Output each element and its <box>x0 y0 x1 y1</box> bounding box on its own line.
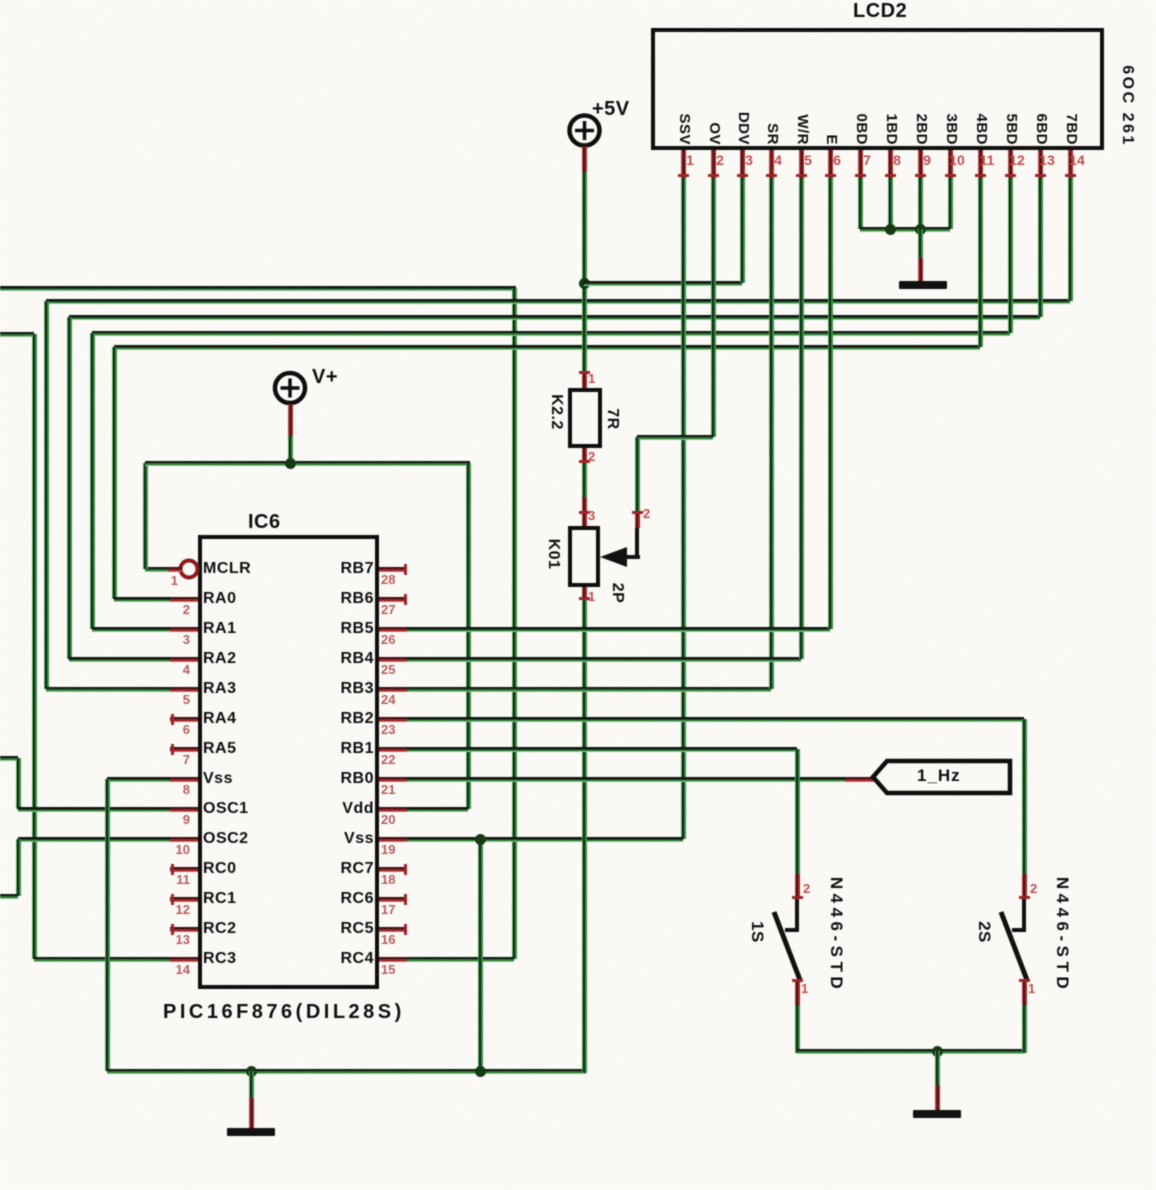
LCD2 pin 8 end tick <box>885 174 896 177</box>
IC6 pin end tick (RC6) <box>404 894 407 905</box>
S1 top contact hook <box>795 899 799 932</box>
R7 pin number 1 <box>588 372 595 386</box>
IC6 pin number 1 <box>150 574 178 588</box>
wire net RC4 row to IC pin 15 <box>407 957 514 962</box>
IC6 pin number 17 <box>381 903 395 917</box>
IC6 pin end tick (RA4) <box>171 714 174 725</box>
wire net MCLR riser <box>143 463 148 569</box>
wire net P2 bottom drop to GND rail <box>582 598 587 1073</box>
IC6 pin number 24 <box>381 693 395 707</box>
IC6 pin number 12 <box>158 903 190 917</box>
IC6 pin name RC0 <box>203 860 237 878</box>
IC6 pin number 15 <box>381 963 395 977</box>
wire net OSC1 row to IC pin 9 <box>18 807 172 812</box>
wire net RA2 row to IC pin 4 <box>69 657 172 662</box>
label R7 <box>603 408 621 429</box>
IC6 pin name OSC1 <box>203 800 249 818</box>
P2 body outline <box>568 526 600 587</box>
IC6 pin name RB0 <box>278 770 374 788</box>
wire net switch ground rail <box>797 1049 1024 1054</box>
wire net LCD VO drop <box>711 178 716 437</box>
S2 pin number 1 <box>1028 982 1035 996</box>
junction V+ node <box>285 458 296 469</box>
R7 pin stub 2 (bottom) <box>582 448 587 463</box>
switch S1 DTS-644N <box>0 0 1156 3</box>
wire net RC3 entry (off-canvas left) <box>0 332 34 337</box>
wire net OSC2 exit (off-canvas left) <box>0 894 18 899</box>
IC6 pin name RC6 <box>278 890 374 908</box>
LCD2 pin number 1 <box>680 153 700 167</box>
wire net V+ stem lower <box>288 428 293 463</box>
wire net RB5 row <box>407 627 830 632</box>
LCD2 pin name DB5 <box>1002 113 1020 145</box>
wire net Vdd riser <box>466 463 471 809</box>
R7 pin 2 end tick <box>579 460 590 463</box>
IC6 pin number 20 <box>381 813 395 827</box>
wire net RA3-DB7 horizontal <box>46 299 1070 304</box>
wire net V+ horizontal <box>145 461 470 466</box>
IC6 pin name RB6 <box>278 590 374 608</box>
wire net RB1 row <box>407 747 797 752</box>
IC6 pin stub 25 (RB4) <box>379 657 407 662</box>
ground symbol (switch rail) <box>913 1110 961 1118</box>
wire net +5V stem <box>582 170 587 371</box>
LCD2 body outline <box>651 28 1104 150</box>
IC6 pin name RC7 <box>278 860 374 878</box>
LCD2 pin name RS <box>763 123 781 145</box>
IC6 pin number 6 <box>158 723 190 737</box>
label value 10K <box>544 539 562 570</box>
LCD2 pin stub 2 (VO) <box>711 150 716 178</box>
wire net S2 bottom drop <box>1022 1005 1027 1053</box>
IC6 pin stub 20 (Vdd) <box>379 807 407 812</box>
S1 pin 2 end tick <box>792 896 803 899</box>
IC6 pin stub 24 (RB3) <box>379 687 407 692</box>
LCD2 pin name VDD <box>734 112 752 145</box>
wire net OSC1 jog <box>16 758 21 809</box>
label S2 <box>975 921 993 943</box>
LCD2 pin number 4 <box>768 153 788 167</box>
LCD2 pin number 2 <box>710 153 730 167</box>
P2 wiper pin stub 2 (red) <box>635 511 640 528</box>
wire net OSC2 jog <box>16 839 21 896</box>
IC6 pin stub 22 (RB1) <box>379 747 407 752</box>
wire net R7 to P2 link <box>582 461 587 499</box>
S1 pin stub top (red) <box>795 874 800 899</box>
R7 pin number 2 <box>588 450 595 464</box>
wire net RA1-DB5 horizontal <box>92 331 1010 336</box>
IC6 pin stub 10 (OSC2) <box>170 837 198 842</box>
ground stem red (LCD data) <box>918 258 923 282</box>
wire net E drop <box>828 178 833 629</box>
IC6 pin name OSC2 <box>203 830 249 848</box>
R7 pin stub 1 (top) <box>582 371 587 388</box>
IC6 pin stub 12 (RC1) <box>170 897 198 902</box>
IC6 pin name RC2 <box>203 920 237 938</box>
LCD2 pin stub 13 (DB6) <box>1038 150 1043 178</box>
LCD2 pin stub 3 (VDD) <box>740 150 745 178</box>
label 1_Hz <box>917 767 961 785</box>
LCD2 pin 6 end tick <box>825 174 836 177</box>
wire net RB3 row <box>407 687 771 692</box>
LCD2 pin stub 14 (DB7) <box>1068 150 1073 178</box>
IC6 pin stub 9 (OSC1) <box>170 807 198 812</box>
LCD2 pin name R/W <box>793 114 811 145</box>
R7 pin 1 end tick <box>579 371 590 374</box>
LCD2 pin 4 end tick <box>766 174 777 177</box>
label LCD2 <box>853 0 907 22</box>
LCD2 pin name DB6 <box>1032 113 1050 145</box>
IC6 pin stub 6 (RA4) <box>170 717 198 722</box>
IC6 pin name RC5 <box>278 920 374 938</box>
LCD2 pin name DB0 <box>852 113 870 145</box>
LCD2 pin stub 7 (DB0) <box>858 150 863 178</box>
LCD2 pin 11 end tick <box>975 174 986 177</box>
LCD2 pin stub 4 (RS) <box>769 150 774 178</box>
IC6 pin number 11 <box>158 873 190 887</box>
wire net +5V to LCD VDD <box>584 281 742 286</box>
IC6 pin number 19 <box>381 843 395 857</box>
wire net RA1 row to IC pin 3 <box>92 627 172 632</box>
wire net RC3 row to IC pin 14 <box>34 957 172 962</box>
LCD2 pin stub 10 (DB3) <box>948 150 953 178</box>
LCD2 pin stub 6 (E) <box>828 150 833 178</box>
wire net IC ground stem (green) <box>249 1071 254 1100</box>
wire net DB0-DB3 join <box>860 227 950 232</box>
label S1 <box>748 921 766 943</box>
junction switch rail / ground stem <box>932 1046 943 1057</box>
+5V supply symbol <box>566 112 603 149</box>
IC6 pin number 2 <box>158 603 190 617</box>
IC6 pin stub 7 (RA5) <box>170 747 198 752</box>
IC6 pin end tick (RC2) <box>171 924 174 935</box>
wire net RA0-DB4 horizontal <box>114 345 980 350</box>
IC6 pin end tick (RC5) <box>404 924 407 935</box>
LCD2 pin name VSS <box>675 113 693 145</box>
IC6 pin number 27 <box>381 603 395 617</box>
wire net DB3 drop <box>948 178 953 229</box>
IC6 pin stub 14 (RC3) <box>170 957 198 962</box>
IC6 pin name Vdd <box>278 800 374 818</box>
IC6 pin stub 21 (RB0) <box>379 777 407 782</box>
P2 wiper lead vertical <box>635 528 639 559</box>
LCD2 pin number 6 <box>827 153 847 167</box>
label P2 <box>608 583 626 604</box>
label value PIC16F876(DIL28S) <box>163 1001 405 1023</box>
wire net RA3 row to IC pin 5 <box>46 687 172 692</box>
IC6 pin stub 15 (RC4) <box>379 957 407 962</box>
wire net DB6 drop <box>1038 178 1043 317</box>
LCD2 pin name DB7 <box>1062 113 1080 145</box>
V+ pin stub (red) <box>288 404 293 436</box>
IC6 pin number 14 <box>158 963 190 977</box>
IC6 pin name RA5 <box>203 740 237 758</box>
IC6 pin stub 13 (RC2) <box>170 927 198 932</box>
LCD2 pin name E <box>822 134 840 145</box>
IC6 pin name RC4 <box>278 950 374 968</box>
ground symbol (IC ground rail) <box>227 1128 275 1136</box>
wire net RA1 left riser <box>90 333 95 629</box>
S2 lever <box>995 906 1033 986</box>
IC6 pin stub 26 (RB5) <box>379 627 407 632</box>
wire net switch ground stem <box>935 1051 940 1085</box>
wire net DB4 drop <box>978 178 983 347</box>
IC6 pin number 26 <box>381 633 395 647</box>
IC6 pin name RB2 <box>278 710 374 728</box>
LCD2 pin name DB2 <box>912 113 930 145</box>
wire net MCLR row <box>145 567 170 572</box>
P2 pin 2 end tick <box>632 511 643 514</box>
junction +5V node <box>579 278 590 289</box>
LCD2 pin 1 end tick <box>678 174 689 177</box>
LCD2 pin name DB1 <box>882 113 900 145</box>
ground stem red (IC) <box>249 1098 254 1128</box>
IC6 pin number 25 <box>381 663 395 677</box>
wire net S1 drop <box>795 749 800 874</box>
LCD2 pin number 8 <box>887 153 907 167</box>
1_Hz flag outline <box>869 755 1015 799</box>
IC6 pin end tick (RA5) <box>171 744 174 755</box>
wire net DB0 drop <box>858 178 863 229</box>
IC6 pin name RB5 <box>278 620 374 638</box>
S1 pin stub bottom (red) <box>795 979 800 1005</box>
P2 pin stub 1 (bottom) <box>582 587 587 600</box>
IC6 pin name RC3 <box>203 950 237 968</box>
wire net DB join ground stem <box>918 229 923 258</box>
IC6 pin number 5 <box>158 693 190 707</box>
IC6 pin name RC1 <box>203 890 237 908</box>
wire net DB5 drop <box>1008 178 1013 333</box>
wire net LCD VSS pin1 drop <box>681 178 686 839</box>
IC6 pin end tick (RB6) <box>404 594 407 605</box>
P2 pin 1 end tick <box>579 597 590 600</box>
IC6 pin number 22 <box>381 753 395 767</box>
junction DB1 join <box>885 224 896 235</box>
wire net VO-wiper horizontal <box>637 435 713 440</box>
LCD2 pin number 10 <box>947 153 967 167</box>
wire net S2 drop <box>1022 719 1027 874</box>
LCD2 pin 5 end tick <box>796 174 807 177</box>
wire net S1 bottom drop <box>795 1005 800 1053</box>
S2 pin stub top (red) <box>1022 874 1027 899</box>
wire net GND bottom rail <box>107 1069 586 1074</box>
label value 2.2K <box>547 394 565 430</box>
IC6 pin number 7 <box>158 753 190 767</box>
LCD2 pin stub 11 (DB4) <box>978 150 983 178</box>
label value DTS-644N (S1) <box>827 877 845 993</box>
LCD2 pin 2 end tick <box>708 174 719 177</box>
LCD2 pin stub 9 (DB2) <box>918 150 923 178</box>
wire net Vss19 row <box>407 837 683 842</box>
LCD2 pin name DB3 <box>942 113 960 145</box>
LCD2 pin 12 end tick <box>1005 174 1016 177</box>
label value 162 CO6 <box>1118 65 1136 147</box>
LCD2 pin number 11 <box>977 153 997 167</box>
junction DB2 join <box>915 224 926 235</box>
IC6 pin stub 27 (RB6) <box>379 597 407 602</box>
IC6 pin stub 28 (RB7) <box>379 567 407 572</box>
IC6 pin stub 2 (RA0) <box>170 597 198 602</box>
S2 pin stub bottom (red) <box>1022 979 1027 1005</box>
IC6 pin number 13 <box>158 933 190 947</box>
resistor R7 2.2K <box>0 0 1156 1</box>
IC6 pin name Vss <box>278 830 374 848</box>
IC6 pin name RA0 <box>203 590 237 608</box>
IC6 body outline <box>198 535 379 989</box>
LCD2 pin number 7 <box>857 153 877 167</box>
wire net GND left drop <box>105 779 110 1071</box>
LCD2 pin number 12 <box>1007 153 1027 167</box>
potentiometer P2 10K <box>0 0 1156 1</box>
wire net RA2-DB6 horizontal <box>69 315 1040 320</box>
S1 lever <box>768 906 806 986</box>
wire net RB4 row <box>407 657 801 662</box>
+5V pin stub (red) <box>582 146 587 172</box>
IC6 pin number 28 <box>381 573 395 587</box>
wire net RA0 row to IC pin 2 <box>114 597 172 602</box>
IC6 pin end tick (RB7) <box>404 564 407 575</box>
label V+ <box>312 366 338 388</box>
IC6 pin 1 MCLR inversion bubble <box>177 557 201 581</box>
IC6 pin name RA1 <box>203 620 237 638</box>
ground symbol (LCD data pins) <box>899 281 947 289</box>
switch S2 DTS-644N <box>0 0 1156 3</box>
IC6 pin stub 11 (RC0) <box>170 867 198 872</box>
IC6 pin name RB4 <box>278 650 374 668</box>
wire net DB7 drop <box>1068 178 1073 301</box>
S2 pin number 2 <box>1030 882 1037 896</box>
wire net R/W drop <box>799 178 804 659</box>
IC6 pin name MCLR <box>203 560 251 578</box>
junction GND rail / ground stem <box>246 1066 257 1077</box>
IC6 pin stub 17 (RC6) <box>379 897 407 902</box>
IC IC6 PIC16F876 <box>0 0 1156 2</box>
label IC6 <box>248 511 281 533</box>
IC6 pin number 8 <box>158 783 190 797</box>
1_Hz red stub <box>845 777 875 782</box>
IC6 pin end tick (RC7) <box>404 864 407 875</box>
wire net RC4 riser <box>512 288 517 959</box>
IC6 pin name RA3 <box>203 680 237 698</box>
wire net RB0 row to 1_Hz <box>407 777 845 782</box>
P2 pin number 3 <box>588 509 595 523</box>
wire net DB1 drop <box>888 178 893 229</box>
LCD2 pin 13 end tick <box>1035 174 1046 177</box>
LCD2 pin 3 end tick <box>737 174 748 177</box>
IC6 pin number 23 <box>381 723 395 737</box>
wire net RS drop <box>769 178 774 689</box>
wire net DB2 drop <box>918 178 923 229</box>
net label flag 1_Hz <box>0 0 1156 2</box>
LCD2 pin stub 8 (DB1) <box>888 150 893 178</box>
IC6 pin stub 18 (RC7) <box>379 867 407 872</box>
IC6 pin name RB3 <box>278 680 374 698</box>
LCD2 pin number 13 <box>1037 153 1057 167</box>
P2 wiper arrow <box>598 544 643 570</box>
S2 pin 2 end tick <box>1019 896 1030 899</box>
IC LCD2 display module <box>0 0 1156 1</box>
S2 pin 1 end tick <box>1019 979 1030 982</box>
LCD2 pin 10 end tick <box>945 174 956 177</box>
junction GND rail / Vss19 drop <box>475 1066 486 1077</box>
LCD2 pin name VO <box>705 122 723 145</box>
label +5V <box>592 98 630 120</box>
wire net RC4 top horizontal (off-canvas left) <box>0 286 516 291</box>
IC6 pin stub 5 (RA3) <box>170 687 198 692</box>
LCD2 pin stub 12 (DB5) <box>1008 150 1013 178</box>
IC6 pin stub 16 (RC5) <box>379 927 407 932</box>
wire net GND drop from IC pin 19 junction <box>478 839 483 1071</box>
P2 pin number 1 <box>588 590 595 604</box>
IC6 pin number 3 <box>158 633 190 647</box>
IC6 pin name Vss <box>203 770 233 788</box>
wire net LCD VDD drop <box>740 178 745 283</box>
LCD2 pin 14 end tick <box>1065 174 1076 177</box>
IC6 pin number 18 <box>381 873 395 887</box>
IC6 pin name RB7 <box>278 560 374 578</box>
LCD2 pin number 9 <box>917 153 937 167</box>
R7 body outline <box>568 388 602 448</box>
wire net wiper riser <box>635 437 640 511</box>
IC6 pin name RA4 <box>203 710 237 728</box>
wire net RB2 row <box>407 717 1024 722</box>
IC6 pin name RA2 <box>203 650 237 668</box>
IC6 pin stub 1 (MCLR) <box>168 567 182 572</box>
IC6 pin end tick (RC0) <box>171 864 174 875</box>
LCD2 pin 9 end tick <box>915 174 926 177</box>
wire net OSC1 entry (off-canvas left) <box>0 756 18 761</box>
wire net RC3 riser <box>32 334 37 959</box>
IC6 pin number 4 <box>158 663 190 677</box>
S1 pin number 1 <box>801 982 808 996</box>
S1 pin number 2 <box>803 882 810 896</box>
wire net GND Vss row from IC pin 8 <box>107 777 172 782</box>
IC6 pin stub 23 (RB2) <box>379 717 407 722</box>
R7 lower red lead <box>582 497 587 511</box>
S1 pin 1 end tick <box>792 979 803 982</box>
P2 pin 3 end tick <box>579 511 590 514</box>
wire net Vdd row to IC pin 20 <box>407 807 468 812</box>
IC6 pin number 21 <box>381 783 395 797</box>
wire net RA2 left riser <box>67 317 72 659</box>
LCD2 pin stub 5 (R/W) <box>799 150 804 178</box>
IC6 pin end tick (RC1) <box>171 894 174 905</box>
wire net RA0 left riser <box>112 347 117 599</box>
IC6 pin stub 8 (Vss) <box>170 777 198 782</box>
LCD2 pin number 14 <box>1067 153 1087 167</box>
LCD2 pin number 3 <box>739 153 759 167</box>
wire net OSC2 row from IC pin 10 <box>18 837 172 842</box>
wire net RA3 left riser <box>44 301 49 689</box>
P2 pin number 2 (wiper) <box>643 507 650 521</box>
LCD2 pin stub 1 (VSS) <box>681 150 686 178</box>
junction Vss19 branch <box>475 834 486 845</box>
IC6 pin stub 19 (Vss) <box>379 837 407 842</box>
P2 pin stub 3 (top) <box>582 511 587 526</box>
LCD2 pin 7 end tick <box>855 174 866 177</box>
V+ supply symbol <box>272 370 309 407</box>
LCD2 pin number 5 <box>798 153 818 167</box>
label value DTS-644N (S2) <box>1053 877 1071 993</box>
IC6 pin stub 3 (RA1) <box>170 627 198 632</box>
IC6 pin name RB1 <box>278 740 374 758</box>
S2 top contact hook <box>1022 899 1026 932</box>
IC6 pin number 9 <box>158 813 190 827</box>
LCD2 pin name DB4 <box>972 113 990 145</box>
IC6 pin number 10 <box>158 843 190 857</box>
IC6 pin number 16 <box>381 933 395 947</box>
ground stem red (switches) <box>935 1085 940 1110</box>
